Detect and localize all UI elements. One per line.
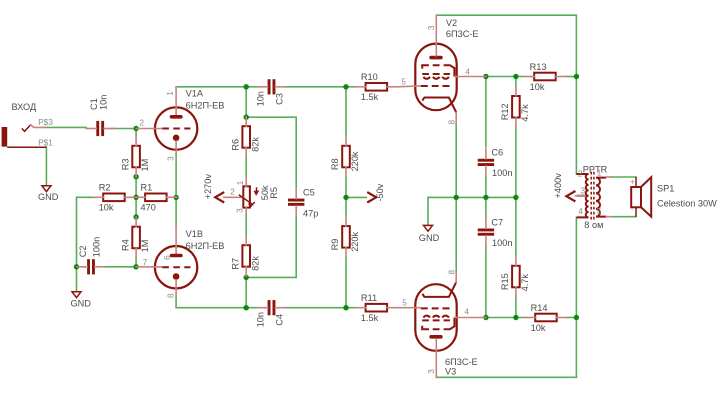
svg-text:1M: 1M [140, 159, 150, 172]
resistor R13 [524, 73, 566, 81]
svg-text:P$1: P$1 [38, 139, 53, 148]
svg-text:8 ом: 8 ом [584, 220, 603, 230]
svg-text:220k: 220k [350, 231, 360, 251]
wire net R15 top from ground rail [515, 197, 517, 255]
wire net R7 bottom to bottom rail [245, 277, 247, 307]
svg-text:C3: C3 [275, 93, 285, 105]
wire net R12 bottom to ground rail [515, 128, 517, 198]
wire net top rail to R10 [346, 86, 356, 88]
wire net V1A cathode to R1 to V1B plate column [175, 155, 177, 226]
capacitor C4 [258, 300, 286, 315]
wire net R6 bottom to pot R5 pin1 [245, 158, 247, 177]
wire net R4 bottom to pin7 junction [135, 257, 137, 267]
wire net R15 bottom to bottom screen row [515, 298, 517, 318]
wire net V3 screen row junctions [486, 317, 525, 319]
resistor R10 [356, 83, 398, 91]
wire net ground rail [428, 196, 516, 198]
wire net transformer pin1 to speaker plus [612, 176, 636, 178]
wire net C6 bottom to ground rail [485, 177, 487, 198]
wire net transformer pin5 to speaker minus [612, 216, 636, 218]
pin 3 lead V2 [435, 15, 437, 56]
svg-text:4: 4 [578, 207, 583, 216]
svg-text:+400v: +400v [553, 173, 563, 199]
svg-text:R2: R2 [99, 183, 111, 193]
svg-text:R12: R12 [500, 103, 510, 120]
pin 4 lead V2 [454, 76, 486, 78]
junction [244, 275, 249, 280]
svg-text:4: 4 [465, 308, 470, 317]
svg-text:R1: R1 [141, 183, 153, 193]
supply +400v arrow [566, 191, 575, 201]
wire net ground rail to V3 cathode column [455, 197, 457, 271]
wire net C6 column top [485, 77, 487, 147]
svg-text:2: 2 [230, 188, 235, 197]
svg-text:4.7k: 4.7k [520, 104, 530, 122]
pin 3 lead V3 [435, 339, 437, 377]
svg-text:-50v: -50v [375, 183, 385, 201]
supply +270v arrow [215, 192, 224, 202]
svg-text:10k: 10k [531, 323, 546, 333]
svg-text:6Н2П-ЕВ: 6Н2П-ЕВ [186, 101, 225, 111]
svg-text:6П3С-Е: 6П3С-Е [446, 29, 479, 39]
wire net top rail C3 right segment to R8 column [285, 86, 346, 88]
pin 8 lead V2 [455, 113, 457, 124]
junction [343, 305, 348, 310]
svg-text:R3: R3 [120, 158, 130, 170]
junction [74, 264, 79, 269]
wire net C7 bottom to bottom row [485, 247, 487, 318]
svg-text:R14: R14 [531, 303, 548, 313]
svg-text:50k: 50k [260, 185, 270, 200]
svg-text:R7: R7 [230, 258, 240, 270]
svg-text:6: 6 [163, 255, 172, 260]
svg-text:1.5k: 1.5k [361, 92, 379, 102]
svg-text:+: + [630, 178, 635, 187]
svg-text:+270v: +270v [203, 174, 213, 200]
wire net -50v node stub [346, 196, 366, 198]
supply -50v arrow [367, 192, 376, 202]
junction [133, 174, 138, 179]
svg-text:4: 4 [465, 68, 470, 77]
resistor R11 [356, 304, 398, 312]
wire net V1A plate rail to top rail y=86.8 [176, 86, 246, 88]
svg-text:R8: R8 [330, 158, 340, 170]
resistor R7 [242, 236, 250, 276]
svg-text:V2: V2 [446, 18, 457, 28]
svg-text:3: 3 [236, 208, 245, 213]
svg-text:100n: 100n [492, 168, 512, 178]
wire net V1B cathode rail to C4 [176, 298, 257, 308]
resistor R15 [512, 256, 520, 297]
svg-text:C5: C5 [303, 187, 315, 197]
svg-text:470: 470 [141, 203, 156, 213]
svg-text:C4: C4 [275, 314, 285, 326]
capacitor C2 [77, 259, 105, 274]
wire net V2 cathode column down to ground rail [455, 123, 457, 197]
wire net R14 right to 576 column [567, 317, 576, 319]
junction [574, 315, 579, 320]
svg-text:220k: 220k [350, 151, 360, 171]
svg-text:8: 8 [166, 293, 175, 298]
svg-text:3: 3 [427, 369, 436, 374]
junction [133, 126, 138, 131]
resistor R1 [135, 194, 177, 202]
wire net transformer pin4 down to V3 plate rail [575, 218, 577, 378]
resistor R9 [342, 217, 350, 258]
svg-text:2: 2 [578, 169, 583, 178]
input jack connector [2, 125, 47, 147]
wire net R13 right to 576 column [567, 76, 577, 78]
svg-text:1M: 1M [140, 240, 150, 253]
wire net R6 column from top rail to C5 branch [245, 87, 247, 117]
junction [454, 195, 459, 200]
junction [133, 214, 138, 219]
svg-text:10n: 10n [255, 91, 265, 106]
svg-text:47p: 47p [303, 209, 318, 219]
wire net jack sleeve down to GND [45, 147, 47, 186]
svg-text:2: 2 [139, 118, 144, 127]
ground GND3 [424, 225, 433, 231]
svg-text:C6: C6 [491, 147, 503, 157]
svg-text:5: 5 [401, 77, 406, 86]
resistor R12 [512, 87, 520, 128]
svg-text:3: 3 [166, 156, 175, 161]
junction [343, 195, 348, 200]
junction [244, 84, 249, 89]
pin 5 lead V2 [397, 85, 420, 88]
svg-text:10k: 10k [99, 203, 114, 213]
junction [173, 195, 178, 200]
wire net R9 bottom to bottom rail junction [345, 258, 347, 308]
resistor R3 [132, 136, 140, 177]
svg-text:R4: R4 [120, 239, 130, 251]
junction [483, 315, 488, 320]
svg-text:5: 5 [402, 299, 407, 308]
wire net input from jack tip to C1 [45, 126, 86, 128]
svg-text:82k: 82k [250, 137, 260, 152]
capacitor C3 [258, 79, 286, 94]
pin 5 lead V3 [397, 307, 420, 309]
svg-text:C1: C1 [89, 98, 99, 110]
svg-text:R15: R15 [500, 273, 510, 290]
speaker SP1 [631, 177, 651, 217]
pentode V2 [415, 44, 456, 113]
wire net C7 top from ground rail [485, 197, 487, 218]
junction [513, 315, 518, 320]
wire net C5 top branch horizontal [246, 117, 296, 188]
svg-text:R5: R5 [269, 187, 279, 199]
ground GND2 [72, 292, 81, 298]
svg-text:SP1: SP1 [657, 184, 674, 194]
wire net R12 top from screen row [515, 77, 517, 87]
svg-text:C2: C2 [78, 245, 88, 257]
ground GND1 [42, 186, 51, 192]
svg-text:GND: GND [419, 233, 440, 243]
wire net R3 top to grid junction [135, 129, 137, 138]
junction [244, 305, 249, 310]
wire net C2 right to R4/pin7 junction [105, 266, 136, 268]
junction [343, 84, 348, 89]
wire net R7 bottom junction to C5 bottom branch [246, 216, 296, 278]
junction [483, 74, 488, 79]
svg-text:ВХОД: ВХОД [12, 102, 37, 112]
svg-text:10n: 10n [255, 312, 265, 327]
wire net R8 top stub rail [345, 87, 347, 136]
svg-text:V1A: V1A [186, 89, 204, 99]
junction [513, 74, 518, 79]
svg-text:6П3С-Е: 6П3С-Е [445, 357, 478, 367]
svg-text:6Н2П-ЕВ: 6Н2П-ЕВ [186, 241, 225, 251]
wire net R3 column: junctions to R1/R2 row and R4 [135, 177, 137, 198]
wire net V2 plate top rail to transformer pin2 [436, 15, 576, 76]
svg-text:3: 3 [581, 187, 586, 196]
wire net R2 left to C2 left / GND2 riser [77, 197, 95, 266]
svg-text:7: 7 [143, 258, 148, 267]
svg-text:8: 8 [448, 270, 457, 275]
junction [513, 195, 518, 200]
svg-text:R13: R13 [530, 62, 547, 72]
junction [244, 115, 249, 120]
svg-text:1: 1 [236, 180, 245, 185]
junction [133, 195, 138, 200]
wire net GND3 riser [427, 197, 429, 225]
svg-text:R6: R6 [230, 139, 240, 151]
wire net x=576 down to transformer pin 2 [575, 77, 577, 175]
svg-text:1: 1 [166, 91, 175, 96]
resistor R14 [525, 314, 567, 322]
svg-text:Celestion 30W: Celestion 30W [657, 198, 717, 208]
resistor R8 [342, 136, 350, 177]
svg-text:V3: V3 [445, 367, 456, 377]
transformer PPTR [576, 172, 612, 220]
svg-text:GND: GND [71, 299, 92, 309]
svg-text:4.7k: 4.7k [520, 274, 530, 292]
resistor R2 [93, 194, 135, 202]
wire net V3 plate bottom rail [436, 376, 576, 378]
resistor R4 [132, 217, 140, 257]
svg-text:1: 1 [597, 168, 602, 177]
svg-text:1.5k: 1.5k [361, 313, 379, 323]
svg-text:10n: 10n [99, 95, 109, 110]
capacitor C1 [86, 121, 114, 136]
svg-text:PPTR: PPTR [583, 164, 608, 174]
svg-text:GND: GND [38, 192, 59, 202]
junction [483, 195, 488, 200]
wire net C4 right to R9 column to R11 [285, 307, 356, 309]
capacitor C5 [288, 188, 304, 216]
triode V1B [136, 226, 197, 297]
svg-text:5: 5 [597, 207, 602, 216]
wire net R9 column -50v to R9 top [345, 197, 347, 215]
svg-text:·: · [631, 206, 634, 215]
svg-text:R11: R11 [361, 293, 377, 303]
svg-text:P$3: P$3 [38, 118, 53, 127]
svg-text:100n: 100n [492, 238, 512, 248]
wire net top rail C3 left segment [246, 86, 257, 88]
svg-text:V1B: V1B [186, 229, 203, 239]
wire net GND2 riser below C2 [76, 267, 78, 292]
pin 4 lead V3 [454, 317, 486, 319]
wire net pot R5 pin3 to R7 top [245, 214, 247, 236]
svg-text:R9: R9 [330, 239, 340, 251]
svg-text:R10: R10 [361, 72, 378, 82]
wire net C1 to V1A grid junction [110, 128, 136, 130]
svg-text:100n: 100n [91, 237, 101, 257]
svg-text:C7: C7 [491, 218, 503, 228]
capacitor C7 [478, 218, 494, 246]
wire net V2 screen row g2 junctions [486, 76, 524, 78]
pin 8 lead V3 [455, 271, 457, 282]
resistor R6 [242, 117, 250, 157]
pentode V3 [415, 282, 456, 351]
triode V1A [136, 87, 197, 155]
junction [574, 74, 579, 79]
junction [133, 264, 138, 269]
svg-text:82k: 82k [250, 256, 260, 271]
svg-text:10k: 10k [530, 82, 545, 92]
potentiometer R5 [224, 177, 259, 214]
wire net R8 bottom to -50v node [345, 178, 347, 198]
svg-text:8: 8 [448, 120, 457, 125]
capacitor C6 [478, 148, 494, 176]
svg-text:3: 3 [427, 25, 436, 30]
